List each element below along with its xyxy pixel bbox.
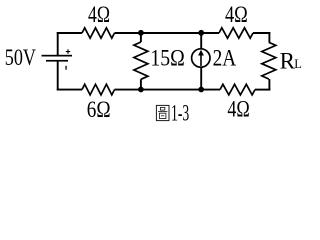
svg-text:R: R (280, 48, 296, 73)
wire right branch lower (268, 79, 270, 91)
node junction dot bottom of current source (198, 87, 204, 93)
svg-text:50V: 50V (5, 45, 36, 70)
wire top rail right segment (253, 32, 270, 34)
wire bottom rail middle segment (115, 89, 221, 91)
resistor 4Ω top-right (219, 28, 253, 38)
wire top rail left segment (57, 32, 82, 34)
node junction dot bottom of 15Ω (138, 87, 144, 93)
battery + polarity mark (66, 49, 70, 53)
svg-text:1-3: 1-3 (171, 100, 189, 125)
resistor 15Ω (vertical) (134, 32, 148, 91)
wire left branch lower (battery - to bottom rail corner) (57, 61, 59, 91)
battery 50V bottom plate (46, 60, 68, 62)
battery - polarity tick (65, 66, 66, 70)
wire bottom rail left segment (57, 89, 82, 91)
node junction dot top of 15Ω (138, 30, 144, 36)
svg-text:6Ω: 6Ω (87, 97, 111, 122)
resistor 4Ω bottom-right (220, 84, 255, 95)
current source 2A (192, 32, 210, 91)
wire left branch upper (battery + to top rail corner) (57, 32, 59, 55)
svg-text:4Ω: 4Ω (225, 2, 248, 27)
svg-text:2A: 2A (213, 45, 237, 70)
svg-text:4Ω: 4Ω (88, 2, 110, 27)
caption glyph 圖 (drawn) (156, 105, 169, 120)
svg-text:L: L (294, 57, 302, 71)
wire bottom rail right segment (255, 89, 270, 91)
wire top rail middle segment (115, 32, 220, 34)
resistor 6Ω bottom-left (82, 84, 115, 95)
battery 50V top plate (42, 55, 73, 57)
svg-text:4Ω: 4Ω (227, 97, 249, 122)
wire right branch upper (268, 32, 270, 42)
resistor RL (vertical) (262, 42, 276, 79)
resistor 4Ω top-left (82, 28, 115, 38)
node junction dot top of current source (198, 30, 204, 36)
svg-text:15Ω: 15Ω (150, 46, 184, 71)
